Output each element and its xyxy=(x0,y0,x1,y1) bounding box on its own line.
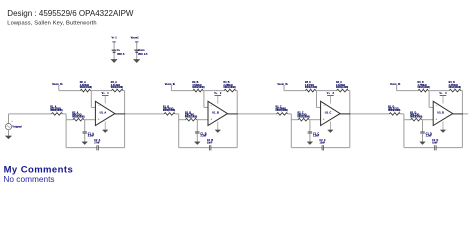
wire feedback to inverting input stage D xyxy=(428,91,430,108)
svg-text:V+: V+ xyxy=(117,49,121,52)
svg-text:−: − xyxy=(436,104,438,108)
wire top feedback stage A xyxy=(59,90,81,92)
capacitor C1_B xyxy=(195,132,207,138)
svg-text:0603(1608): 0603(1608) xyxy=(72,115,84,118)
wire output feedback vertical stage D xyxy=(461,91,463,148)
capacitor C1_C xyxy=(308,132,320,138)
node B vertical stage A xyxy=(84,120,86,132)
wire node A to R2 stage A xyxy=(66,119,73,121)
svg-text:0603(1608): 0603(1608) xyxy=(336,86,348,89)
node output junction stage C xyxy=(349,113,351,115)
svg-text:−: − xyxy=(211,104,213,108)
wire R2 to plus input stage D xyxy=(422,119,433,121)
wire R2 to plus input stage A xyxy=(84,119,95,121)
ground below C1_B xyxy=(195,142,201,145)
wire stage A output to next stage xyxy=(125,113,165,115)
svg-text:U1_A: U1_A xyxy=(100,110,107,114)
wire output feedback vertical stage A xyxy=(124,91,126,148)
capacitor C1_A xyxy=(83,132,95,138)
wire R1 to node A stage C xyxy=(288,113,292,115)
svg-text:0603(1608): 0603(1608) xyxy=(223,86,235,89)
node B vertical stage D xyxy=(422,120,424,132)
svg-text:0603(1608): 0603(1608) xyxy=(50,109,62,112)
svg-text:10nF: 10nF xyxy=(432,142,438,145)
wire Vocm_fb tick stage C xyxy=(283,85,285,90)
wire feedback to inverting input stage A xyxy=(90,91,92,108)
wire op-amp output stage C xyxy=(340,113,350,115)
svg-text:VDC 5: VDC 5 xyxy=(117,53,125,56)
wire R2 to plus input stage B xyxy=(197,119,208,121)
ground pin stage A xyxy=(103,122,108,133)
wire top feedback stage C xyxy=(284,90,306,92)
svg-text:V+: V+ xyxy=(102,92,106,95)
resistor R1_A xyxy=(50,105,62,115)
voltage source Vsignal xyxy=(5,119,22,130)
wire feedback to inverting input stage C xyxy=(316,91,318,108)
capacitor C1_D xyxy=(420,132,432,138)
svg-text:0603(1608): 0603(1608) xyxy=(410,115,422,118)
svg-text:0603(1608): 0603(1608) xyxy=(276,109,288,112)
svg-text:No comments: No comments xyxy=(3,174,54,184)
resistor R1_C xyxy=(276,105,288,115)
resistor R2_D xyxy=(410,112,422,121)
wire top feedback stage D xyxy=(397,90,419,92)
wire bottom feedback stage D xyxy=(404,147,435,149)
svg-text:1.5nF: 1.5nF xyxy=(313,134,320,137)
wire C1 to ground stage A xyxy=(84,133,86,142)
svg-text:VDC 2.5: VDC 2.5 xyxy=(138,53,148,56)
resistor R3_C xyxy=(305,81,317,92)
ground below source Vp1 xyxy=(111,59,117,62)
resistor R4_D xyxy=(449,81,461,92)
wire final output xyxy=(462,113,468,115)
node A vertical stage A xyxy=(65,114,67,148)
wire C1 to ground stage D xyxy=(422,133,424,142)
resistor R2_B xyxy=(185,112,197,121)
resistor R4_B xyxy=(223,81,235,92)
svg-text:Vocm_fb: Vocm_fb xyxy=(52,83,63,86)
svg-text:Vocm_fb: Vocm_fb xyxy=(277,83,288,86)
wire supply Vocm1 vertical xyxy=(136,41,138,59)
node B vertical stage C xyxy=(309,120,311,132)
node A vertical stage B xyxy=(178,114,180,148)
power pin V+ stage A xyxy=(102,92,110,104)
wire output feedback vertical stage C xyxy=(349,91,351,148)
wire node A to R2 stage D xyxy=(404,119,411,121)
svg-text:+: + xyxy=(323,117,325,121)
svg-text:0603(1608): 0603(1608) xyxy=(449,86,461,89)
svg-text:V+: V+ xyxy=(439,92,443,95)
wire bottom feedback stage C xyxy=(291,147,322,149)
node output junction stage B xyxy=(236,113,238,115)
svg-text:Vocm1: Vocm1 xyxy=(131,37,140,40)
svg-text:+: + xyxy=(210,117,212,121)
node output junction stage A xyxy=(124,113,126,115)
svg-text:0603(1608): 0603(1608) xyxy=(298,115,310,118)
ground pin stage B xyxy=(215,122,220,133)
resistor R2_C xyxy=(298,112,310,121)
svg-text:Design : 4595529/6 OPA4322AIPW: Design : 4595529/6 OPA4322AIPW xyxy=(7,9,134,18)
resistor R1_D xyxy=(388,105,400,115)
svg-text:Lowpass, Sallen Key, Butterwor: Lowpass, Sallen Key, Butterworth xyxy=(7,21,96,27)
svg-text:Vsignal: Vsignal xyxy=(12,124,22,128)
resistor R4_C xyxy=(336,81,348,92)
wire node A to R2 stage B xyxy=(179,119,186,121)
svg-text:−: − xyxy=(98,104,100,108)
svg-text:V+ 1: V+ 1 xyxy=(111,37,117,40)
wire R1 to node A stage A xyxy=(63,113,67,115)
resistor R3_D xyxy=(418,81,430,92)
svg-text:Vocm_fb: Vocm_fb xyxy=(390,83,401,86)
wire top feedback stage B xyxy=(171,90,193,92)
wire stage B output to next stage xyxy=(237,113,277,115)
svg-text:+: + xyxy=(98,117,100,121)
svg-text:3.3nF: 3.3nF xyxy=(88,134,95,137)
power pin V+ stage C xyxy=(327,92,335,104)
svg-text:0603(1608): 0603(1608) xyxy=(388,109,400,112)
wire Vocm_fb tick stage B xyxy=(170,85,172,90)
svg-text:0603(1608): 0603(1608) xyxy=(418,86,430,89)
svg-text:13nF: 13nF xyxy=(320,142,326,145)
wire supply Vp1 vertical xyxy=(113,41,115,59)
svg-text:0603(1608): 0603(1608) xyxy=(305,86,317,89)
wire R1 to node A stage D xyxy=(400,113,404,115)
svg-text:27nF: 27nF xyxy=(94,142,100,145)
wire Vocm_fb tick stage A xyxy=(58,85,60,90)
resistor R2_A xyxy=(72,112,84,121)
wire op-amp output stage D xyxy=(453,113,463,115)
ground below Vsignal xyxy=(5,136,11,139)
svg-text:0603(1608): 0603(1608) xyxy=(192,86,204,89)
op-amp U1_A xyxy=(95,101,115,125)
node B vertical stage B xyxy=(196,120,198,132)
ground below C1_A xyxy=(82,142,88,145)
wire bottom feedback stage A xyxy=(66,147,97,149)
wire feedback to inverting input stage B xyxy=(203,91,205,108)
resistor R4_A xyxy=(111,81,123,92)
ground below C1_C xyxy=(307,142,313,145)
op-amp U1_C xyxy=(321,101,341,125)
resistor R1_B xyxy=(163,105,175,115)
resistor R3_B xyxy=(192,81,204,92)
wire bottom feedback stage B xyxy=(179,147,210,149)
node A vertical stage C xyxy=(290,114,292,148)
wire R1 to node A stage B xyxy=(175,113,179,115)
svg-text:U1_C: U1_C xyxy=(325,110,332,114)
wire output feedback vertical stage B xyxy=(236,91,238,148)
wire op-amp output stage B xyxy=(228,113,238,115)
ground below source Vocm1 xyxy=(134,59,140,62)
svg-text:U1_B: U1_B xyxy=(212,110,219,114)
wire node A to R2 stage C xyxy=(291,119,298,121)
svg-text:V+: V+ xyxy=(214,92,218,95)
ground pin stage C xyxy=(328,122,333,133)
capacitor C2_A xyxy=(94,139,100,151)
node output junction stage D xyxy=(462,113,464,115)
svg-text:2.2nF: 2.2nF xyxy=(200,134,207,137)
svg-text:0603(1608): 0603(1608) xyxy=(80,86,92,89)
voltage source Vocm1 battery xyxy=(134,49,148,56)
wire op-amp output stage A xyxy=(115,113,125,115)
wire source to ground xyxy=(8,130,10,136)
svg-text:0603(1608): 0603(1608) xyxy=(163,109,175,112)
capacitor C2_D xyxy=(432,139,438,151)
wire R2 to plus input stage C xyxy=(309,119,320,121)
wire stage C output to next stage xyxy=(350,113,390,115)
op-amp U1_D xyxy=(433,101,453,125)
voltage source Vp1 battery xyxy=(112,49,125,56)
resistor R3_A xyxy=(80,81,92,92)
svg-text:1.2nF: 1.2nF xyxy=(426,134,433,137)
wire input from source xyxy=(8,114,10,123)
svg-text:15nF: 15nF xyxy=(207,142,213,145)
svg-text:V+: V+ xyxy=(327,92,331,95)
wire C1 to ground stage B xyxy=(196,133,198,142)
power pin V+ stage B xyxy=(214,92,222,104)
svg-text:−: − xyxy=(323,104,325,108)
ground pin stage D xyxy=(440,122,445,133)
svg-text:Vocm_fb: Vocm_fb xyxy=(165,83,176,86)
node A vertical stage D xyxy=(403,114,405,148)
capacitor C2_B xyxy=(207,139,213,151)
power pin V+ stage D xyxy=(439,92,447,104)
ground below C1_D xyxy=(420,142,426,145)
svg-text:+: + xyxy=(435,117,437,121)
svg-text:U1_D: U1_D xyxy=(437,110,444,114)
wire C1 to ground stage C xyxy=(309,133,311,142)
capacitor C2_C xyxy=(320,139,326,151)
wire Vocm_fb tick stage D xyxy=(396,85,398,90)
svg-text:Vocm: Vocm xyxy=(138,49,145,52)
op-amp U1_B xyxy=(208,101,228,125)
svg-text:0603(1608): 0603(1608) xyxy=(111,86,123,89)
svg-text:0603(1608): 0603(1608) xyxy=(185,115,197,118)
